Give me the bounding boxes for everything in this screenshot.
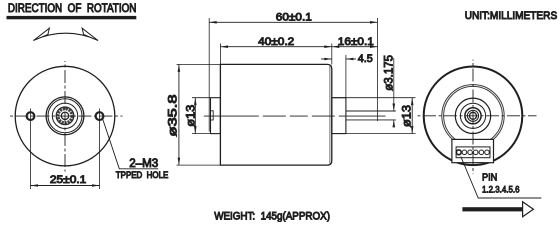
dimension line 40 — [220, 46, 331, 48]
svg-text:ø35.8: ø35.8 — [165, 94, 179, 136]
front view shaft ring — [56, 107, 74, 125]
extension line rear boss top — [332, 97, 416, 99]
extension line right hole — [99, 109, 101, 190]
svg-text:ø13: ø13 — [183, 104, 197, 126]
rear view hub ring 3 — [465, 108, 481, 124]
svg-text:ø13: ø13 — [400, 105, 414, 127]
dimension line rear Ø13 — [411, 98, 413, 134]
extension line front boss top — [192, 97, 211, 99]
rear view connector outer box — [452, 139, 494, 162]
side view front boss — [211, 98, 221, 134]
front view shaft center circle — [61, 112, 68, 119]
extension line rear boss bottom — [332, 133, 416, 135]
extension line body top left — [177, 63, 221, 65]
connector pin 2 — [462, 150, 467, 155]
connector pin 5 — [479, 150, 484, 155]
svg-text:PIN: PIN — [482, 172, 497, 184]
connector pin 4 — [473, 150, 478, 155]
extension line body right top — [331, 44, 333, 65]
front view hub ring 1 — [46, 97, 84, 135]
side view shaft bottom line — [346, 119, 396, 121]
rear view hub ring 2 — [460, 103, 485, 128]
extension line body bottom left — [177, 164, 221, 166]
dimension line Ø3.175 lower — [393, 120, 395, 127]
rear view horizontal centerline — [416, 115, 537, 117]
front view vertical centerline — [64, 61, 66, 172]
svg-text:2–M3: 2–M3 — [129, 156, 158, 170]
rear view hub center circle — [470, 112, 477, 119]
extension line rear boss right — [345, 55, 347, 98]
svg-text:WEIGHT: 145g(APPROX): WEIGHT: 145g(APPROX) — [214, 210, 330, 222]
side view body — [220, 64, 331, 165]
svg-text:25±0.1: 25±0.1 — [50, 174, 86, 186]
svg-text:1.2.3.4.5.6: 1.2.3.4.5.6 — [482, 184, 520, 195]
dimension line 16 — [332, 46, 378, 48]
extension line body left top — [219, 44, 221, 65]
extension line front boss bottom — [192, 133, 211, 135]
front view horizontal centerline — [9, 115, 123, 117]
front view knurl band — [58, 109, 72, 123]
rear view hub ring 1 — [455, 98, 490, 133]
rear view vertical centerline — [472, 60, 474, 175]
svg-text:ø3.175: ø3.175 — [384, 55, 396, 91]
direction arrow head — [523, 202, 534, 217]
side view shaft top line — [346, 110, 396, 112]
side view horizontal centerline — [204, 115, 386, 117]
svg-text:60±0.1: 60±0.1 — [276, 12, 312, 24]
connector pin 3 — [468, 150, 473, 155]
mounting hole right — [96, 112, 104, 120]
front view hub ring 2 — [48, 99, 82, 133]
dimension line Ø3.175 upper — [393, 58, 395, 111]
svg-text:16±0.1: 16±0.1 — [338, 36, 374, 48]
rotation arrow arc — [34, 33, 98, 40]
dimension line Ø35.8 — [178, 64, 180, 165]
rear view case inner circle — [442, 85, 504, 147]
svg-text:TPPED HOLE: TPPED HOLE — [116, 170, 169, 180]
rotation arrow right head — [82, 28, 98, 40]
dimension line 25 — [31, 185, 100, 187]
front view hub ring 3 — [52, 103, 77, 128]
dimension line 60 — [209, 21, 377, 23]
extension line front face — [208, 18, 210, 132]
dimension 4.5 left arrow — [321, 58, 332, 60]
front view outer circle — [15, 66, 115, 166]
title underline bar — [7, 16, 137, 19]
rear view outer circle — [424, 67, 523, 166]
side view can crimp line — [329, 66, 331, 164]
svg-text:4.5: 4.5 — [358, 53, 373, 65]
extension line shaft end — [377, 18, 379, 121]
side view rear boss — [332, 98, 346, 134]
side view front bearing notch — [211, 111, 214, 120]
rear view case inner circle 2 — [444, 86, 503, 145]
connector pin 1 — [456, 150, 461, 155]
svg-text:DIRECTION OF ROTATION: DIRECTION OF ROTATION — [8, 3, 137, 15]
rear view connector inner box — [456, 147, 490, 158]
direction arrow bar — [462, 207, 523, 211]
connector pin 6 — [485, 150, 490, 155]
leader line 2-M3 — [103, 119, 159, 169]
rotation arrow left head — [33, 28, 49, 40]
dimension line front Ø13 — [194, 98, 196, 134]
mounting hole left — [27, 112, 35, 120]
svg-text:40±0.2: 40±0.2 — [258, 36, 294, 48]
extension line left hole — [30, 109, 32, 190]
rear view hub ring 4 — [467, 110, 478, 121]
dimension 4.5 right arrow — [346, 58, 356, 60]
svg-text:UNIT:MILLIMETERS: UNIT:MILLIMETERS — [465, 10, 558, 22]
pin leader line — [461, 157, 542, 199]
